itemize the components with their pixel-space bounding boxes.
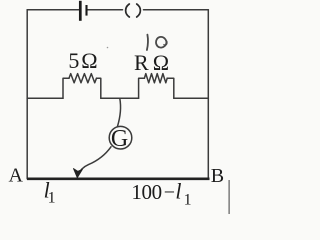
- svg-text:−: −: [164, 181, 175, 203]
- svg-text:5: 5: [68, 48, 79, 73]
- svg-text:1: 1: [48, 190, 56, 207]
- svg-text:Ω: Ω: [81, 48, 97, 73]
- svg-text:A: A: [9, 165, 24, 187]
- svg-text:Ω: Ω: [153, 50, 169, 75]
- svg-text:R: R: [134, 50, 149, 75]
- svg-text:l: l: [175, 178, 181, 203]
- svg-text:B: B: [211, 165, 224, 187]
- svg-text:G: G: [111, 126, 128, 152]
- svg-text:100: 100: [131, 180, 161, 204]
- svg-text:1: 1: [184, 192, 192, 209]
